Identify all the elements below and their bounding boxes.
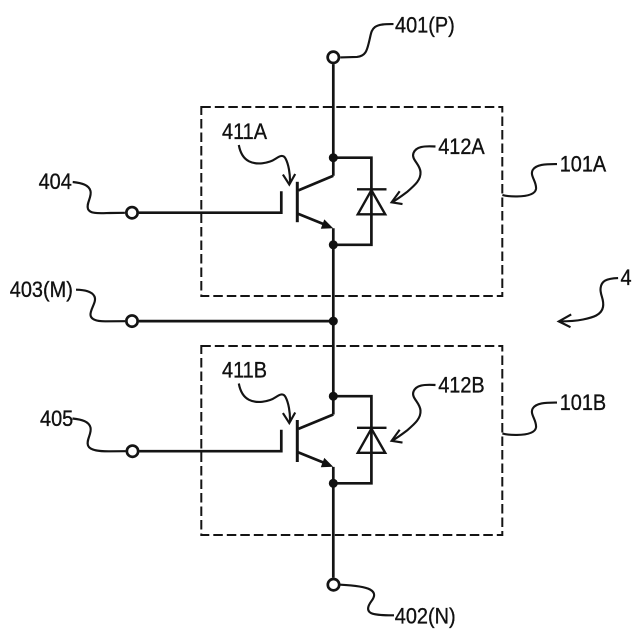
svg-text:4: 4 bbox=[621, 266, 632, 290]
svg-text:412B: 412B bbox=[438, 374, 484, 398]
svg-text:403(M): 403(M) bbox=[10, 278, 73, 302]
svg-text:411A: 411A bbox=[222, 120, 267, 144]
svg-text:101B: 101B bbox=[560, 391, 606, 415]
svg-text:405: 405 bbox=[40, 407, 73, 431]
svg-text:101A: 101A bbox=[560, 153, 606, 177]
svg-text:412A: 412A bbox=[438, 135, 484, 159]
svg-text:411B: 411B bbox=[222, 359, 267, 383]
svg-text:402(N): 402(N) bbox=[395, 605, 456, 629]
svg-text:404: 404 bbox=[39, 170, 73, 194]
svg-text:401(P): 401(P) bbox=[395, 14, 455, 38]
